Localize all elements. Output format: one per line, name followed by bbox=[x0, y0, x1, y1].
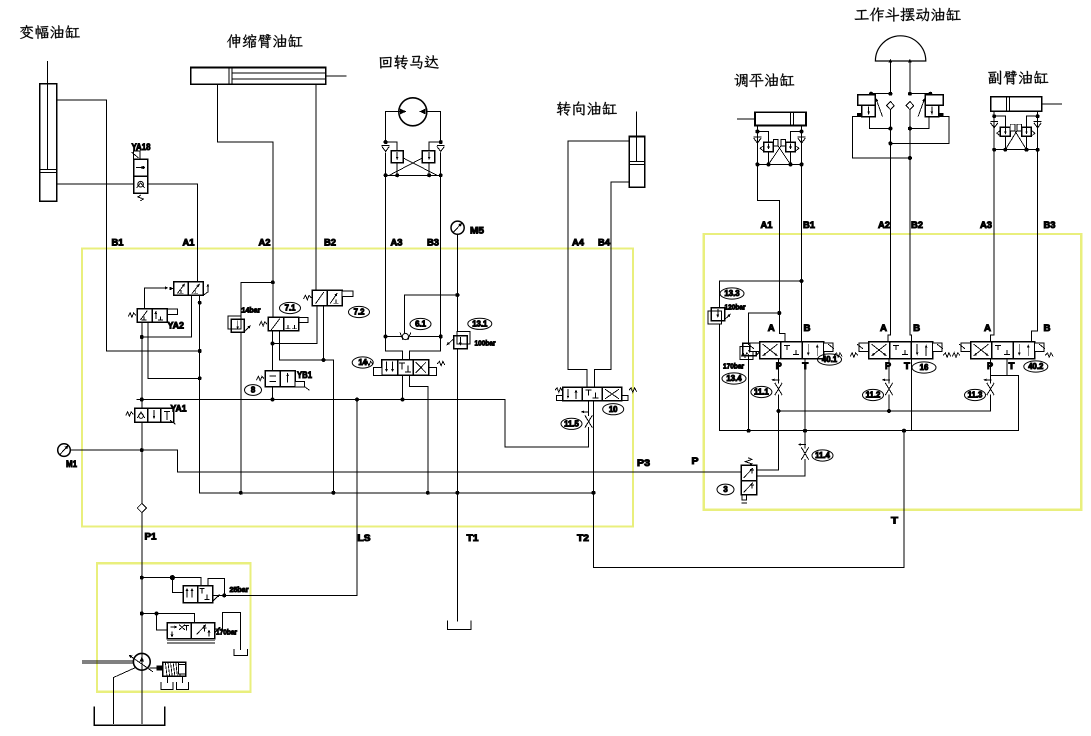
svg-text:B: B bbox=[1044, 323, 1051, 334]
valve YB1 bbox=[257, 371, 309, 390]
valve V1 pilot directional bbox=[169, 282, 209, 296]
tank pump relief bbox=[234, 650, 247, 656]
pump case drain bbox=[114, 668, 136, 724]
relief valve 13.3 120bar bbox=[708, 281, 731, 324]
svg-text:M5: M5 bbox=[470, 226, 485, 237]
label ellipse 11.5 bbox=[561, 418, 582, 429]
cylinder 伸缩臂油缸 bbox=[191, 68, 346, 85]
wire A2 to valve 16 bbox=[888, 110, 890, 342]
svg-text:A2: A2 bbox=[259, 238, 271, 249]
throttle 11.4 bbox=[798, 431, 809, 476]
wire A2 bbox=[218, 84, 273, 317]
wire YA2 to V1 bottom bbox=[141, 322, 143, 399]
wire B3 bbox=[440, 175, 442, 336]
svg-text:13.3: 13.3 bbox=[724, 289, 740, 298]
svg-text:25bar: 25bar bbox=[230, 585, 249, 594]
check valve 6.1 bbox=[386, 333, 441, 340]
pump control actuator bbox=[150, 662, 185, 676]
wire M5 to relief 13.1 bbox=[456, 295, 458, 331]
wire M5 junction bbox=[405, 294, 458, 296]
wire A3 jib bbox=[991, 150, 995, 342]
svg-text:A4: A4 bbox=[572, 238, 585, 249]
svg-text:P: P bbox=[776, 361, 783, 372]
pump block frame (yellow) bbox=[97, 563, 251, 692]
wire M1 line bbox=[70, 449, 177, 451]
wire 7.2 right port bbox=[323, 306, 325, 361]
rail T right block bbox=[720, 430, 1019, 432]
label ellipse 10 bbox=[603, 404, 624, 415]
svg-text:11.4: 11.4 bbox=[815, 451, 830, 460]
valve 10 steering bbox=[555, 387, 636, 400]
svg-text:11.5: 11.5 bbox=[564, 420, 579, 429]
valve block frame 1 (yellow) bbox=[82, 249, 633, 527]
svg-text:T2: T2 bbox=[577, 533, 589, 544]
wire A1 leveling bbox=[757, 164, 784, 341]
wire 120bar branch bbox=[720, 280, 802, 282]
valve block frame 2 (yellow) bbox=[704, 234, 1082, 510]
svg-text:P1: P1 bbox=[145, 532, 158, 543]
motor 回转马达 bbox=[399, 98, 427, 126]
svg-text:7.2: 7.2 bbox=[354, 308, 366, 317]
svg-text:T: T bbox=[904, 361, 910, 372]
svg-text:LS: LS bbox=[358, 533, 371, 544]
svg-text:13.1: 13.1 bbox=[472, 320, 488, 329]
svg-text:B: B bbox=[913, 323, 920, 334]
valve 14 directional bbox=[365, 360, 444, 376]
wire A1 lower vertical bbox=[199, 295, 201, 492]
valve 170bar relief bbox=[167, 623, 220, 643]
rail LS bbox=[137, 399, 505, 401]
wire 170bar branch bbox=[749, 312, 780, 314]
wire B3 into valve 14 bbox=[410, 337, 441, 360]
counterbalance valves motor bbox=[382, 140, 444, 177]
wire A1 lower port bbox=[57, 183, 198, 185]
svg-text:T1: T1 bbox=[467, 533, 480, 544]
svg-text:P3: P3 bbox=[637, 458, 650, 469]
valve YA1 bbox=[126, 408, 175, 424]
rail P right block bbox=[779, 410, 991, 412]
actuator dome 工作斗摆动油缸 bbox=[875, 36, 925, 61]
wire V1 drain bbox=[142, 295, 192, 337]
throttle 11.5 bbox=[581, 401, 592, 428]
label 调平油缸 bbox=[734, 73, 794, 87]
pump main bbox=[129, 653, 153, 671]
label ellipse 13.1 bbox=[468, 318, 492, 329]
valve 16 directional bbox=[850, 342, 950, 359]
cylinder 转向油缸 bbox=[629, 112, 645, 187]
svg-text:A2: A2 bbox=[878, 220, 890, 231]
svg-text:B1: B1 bbox=[803, 220, 816, 231]
gauge M5 bbox=[451, 221, 464, 234]
label 转向油缸 bbox=[557, 101, 617, 115]
wire valve3 out T bbox=[757, 475, 805, 477]
wire motor right B3 bbox=[426, 112, 440, 143]
label ellipse 13.4 bbox=[722, 373, 746, 384]
label ellipse 14 bbox=[352, 357, 373, 368]
wire 120bar to T rail bbox=[719, 324, 721, 431]
wire A2 dome leg bbox=[889, 61, 891, 94]
wire B1 leveling bbox=[801, 164, 803, 341]
svg-text:8: 8 bbox=[251, 386, 256, 395]
pump control tanks bbox=[161, 676, 189, 689]
svg-text:A3: A3 bbox=[391, 238, 403, 249]
wire A4 bbox=[568, 141, 629, 387]
cylinder 变幅油缸 bbox=[40, 61, 57, 201]
wire T 16 bbox=[910, 359, 912, 431]
wire valve14 to LS bbox=[402, 375, 404, 399]
tank T1 bbox=[447, 621, 471, 630]
wire valve3 out P bbox=[757, 411, 779, 470]
label ellipse 8 bbox=[245, 385, 262, 396]
valve 25bar LS regulator bbox=[183, 586, 220, 603]
label ellipse 7.2 bbox=[349, 306, 370, 317]
label ellipse 11.3 bbox=[965, 389, 986, 400]
svg-text:A: A bbox=[768, 323, 775, 334]
label ellipse 6.1 bbox=[410, 318, 431, 329]
label ellipse 13.3 bbox=[720, 288, 744, 299]
svg-text:A: A bbox=[984, 323, 991, 334]
label ellipse 3 bbox=[717, 484, 734, 495]
svg-text:T: T bbox=[1009, 361, 1015, 372]
wire to 170bar valve bbox=[142, 612, 195, 630]
throttle 11.2 bbox=[882, 359, 893, 412]
svg-text:40.2: 40.2 bbox=[1028, 362, 1044, 371]
relief valve 14bar bbox=[228, 316, 251, 332]
svg-text:B1: B1 bbox=[112, 238, 125, 249]
wire B4 bbox=[595, 182, 629, 388]
svg-text:B2: B2 bbox=[911, 220, 923, 231]
svg-text:M1: M1 bbox=[66, 459, 78, 470]
svg-text:14: 14 bbox=[358, 358, 367, 367]
check node P1 bbox=[137, 503, 146, 512]
valve 3 regulator bbox=[741, 458, 756, 503]
gauge M1 bbox=[58, 444, 71, 457]
wire YB1 bottom bbox=[272, 387, 274, 400]
throttle 11.3 bbox=[984, 359, 995, 412]
wire T2 bbox=[594, 401, 905, 568]
wire 170bar to tank bbox=[215, 613, 241, 650]
svg-text:YA18: YA18 bbox=[132, 142, 151, 152]
svg-text:11.2: 11.2 bbox=[866, 391, 881, 400]
wire T 40.2 bbox=[991, 359, 1019, 431]
label 回转马达 bbox=[380, 55, 439, 69]
wire YA2 pilot to V1 bbox=[145, 288, 166, 309]
wire B3 jib bbox=[1032, 150, 1038, 342]
svg-text:YB1: YB1 bbox=[297, 370, 312, 380]
relief valve 13.1 100bar bbox=[447, 331, 471, 348]
svg-text:P: P bbox=[885, 361, 892, 372]
label ellipse 7.1 bbox=[280, 302, 301, 313]
svg-text:P: P bbox=[692, 456, 700, 467]
label 变幅油缸 bbox=[20, 25, 80, 39]
valve 40.2 directional bbox=[952, 342, 1052, 359]
wire LS to YA1 bbox=[141, 400, 143, 409]
svg-text:7.1: 7.1 bbox=[285, 304, 297, 313]
rail P3 bbox=[176, 450, 178, 472]
pump drive shaft bbox=[83, 661, 134, 663]
crossover relief valves 工作斗 bbox=[853, 92, 949, 160]
tank main bbox=[94, 707, 165, 725]
wire A3 bbox=[385, 175, 387, 336]
valve 7.1 bbox=[260, 317, 308, 331]
svg-text:100bar: 100bar bbox=[475, 339, 496, 348]
wire 14bar to T rail bbox=[240, 332, 242, 493]
svg-text:11.3: 11.3 bbox=[968, 391, 983, 400]
wire 14bar branch bbox=[241, 282, 273, 316]
svg-text:11.1: 11.1 bbox=[754, 388, 769, 397]
wire motor left A3 bbox=[386, 112, 400, 143]
svg-text:10: 10 bbox=[609, 405, 618, 414]
svg-text:13.4: 13.4 bbox=[726, 374, 742, 383]
label ellipse 11.1 bbox=[751, 386, 772, 397]
wire A3 into valve 14 bbox=[386, 337, 403, 360]
wire 170bar to T rail bbox=[748, 356, 750, 431]
valve YA18 bbox=[132, 151, 148, 201]
wire relief 13.1 to T1 bbox=[456, 349, 458, 621]
wire LS down bbox=[224, 400, 357, 596]
label ellipse 16 bbox=[912, 362, 936, 373]
label ellipse 11.2 bbox=[863, 389, 884, 400]
svg-text:YA1: YA1 bbox=[171, 404, 187, 414]
valve 40.1 directional bbox=[741, 342, 841, 359]
svg-text:B3: B3 bbox=[1044, 220, 1056, 231]
valve YA2 bbox=[128, 309, 177, 323]
cylinder 副臂油缸 bbox=[991, 97, 1062, 112]
counterbalance valves 调平油缸 bbox=[754, 126, 805, 167]
svg-text:120bar: 120bar bbox=[725, 303, 746, 312]
svg-text:6.1: 6.1 bbox=[415, 320, 427, 329]
label 伸缩臂油缸 bbox=[227, 34, 303, 48]
svg-text:3: 3 bbox=[723, 485, 728, 494]
svg-text:B3: B3 bbox=[427, 238, 439, 249]
wire check to junction bbox=[404, 295, 406, 333]
svg-text:40.1: 40.1 bbox=[822, 355, 838, 364]
cylinder 调平油缸 bbox=[738, 112, 807, 125]
wire 25bar out LS bbox=[208, 579, 224, 596]
wire 11.5 to LS rail bbox=[505, 400, 589, 448]
label ellipse 40.1 bbox=[818, 354, 842, 365]
wire B1 junction bbox=[198, 349, 202, 353]
wire P1 vertical bbox=[141, 422, 143, 563]
wire A2 below 7.1 bbox=[272, 331, 274, 371]
wire valve14 to T bbox=[410, 375, 428, 493]
svg-text:16: 16 bbox=[920, 363, 929, 372]
wire junction A2 A1 bbox=[271, 280, 275, 284]
svg-text:T: T bbox=[891, 516, 898, 527]
wire T down right block bbox=[902, 429, 906, 433]
label ellipse 40.2 bbox=[1024, 361, 1048, 372]
wire P1 in pump block bbox=[141, 563, 143, 723]
throttle 11.1 bbox=[772, 359, 783, 412]
svg-text:14bar: 14bar bbox=[242, 306, 261, 315]
wire YA2 port 2 bbox=[148, 322, 200, 378]
svg-text:A: A bbox=[880, 323, 887, 334]
counterbalance valves 副臂油缸 bbox=[991, 111, 1041, 151]
svg-text:B4: B4 bbox=[598, 238, 611, 249]
relief valve 13.4 170bar bbox=[740, 313, 762, 359]
wire to 25bar valve bbox=[142, 575, 201, 592]
wire B2 to valve 16 bbox=[910, 110, 912, 342]
label ellipse 11.4 bbox=[812, 450, 833, 461]
svg-text:A3: A3 bbox=[980, 220, 992, 231]
rail T block1 bbox=[200, 492, 594, 494]
wire T 40.1 bbox=[804, 359, 806, 431]
wire B2 dome leg bbox=[909, 61, 911, 94]
wire B1 upper port bbox=[57, 100, 200, 351]
svg-text:A1: A1 bbox=[183, 238, 196, 249]
wire B2 bbox=[315, 84, 317, 290]
svg-text:B: B bbox=[804, 323, 811, 334]
wire M5 stem bbox=[456, 234, 458, 295]
svg-text:A1: A1 bbox=[761, 220, 774, 231]
svg-text:B2: B2 bbox=[324, 238, 336, 249]
label 副臂油缸 bbox=[988, 71, 1048, 85]
wire A1 vertical bbox=[197, 184, 199, 282]
wire 7.1 drain to T bbox=[279, 331, 333, 493]
valve 7.2 bbox=[304, 290, 353, 305]
label 工作斗摆动油缸 bbox=[855, 7, 961, 21]
svg-text:YA2: YA2 bbox=[168, 321, 185, 331]
wire 7.2 left port bbox=[273, 306, 317, 344]
svg-text:170bar: 170bar bbox=[723, 362, 744, 371]
